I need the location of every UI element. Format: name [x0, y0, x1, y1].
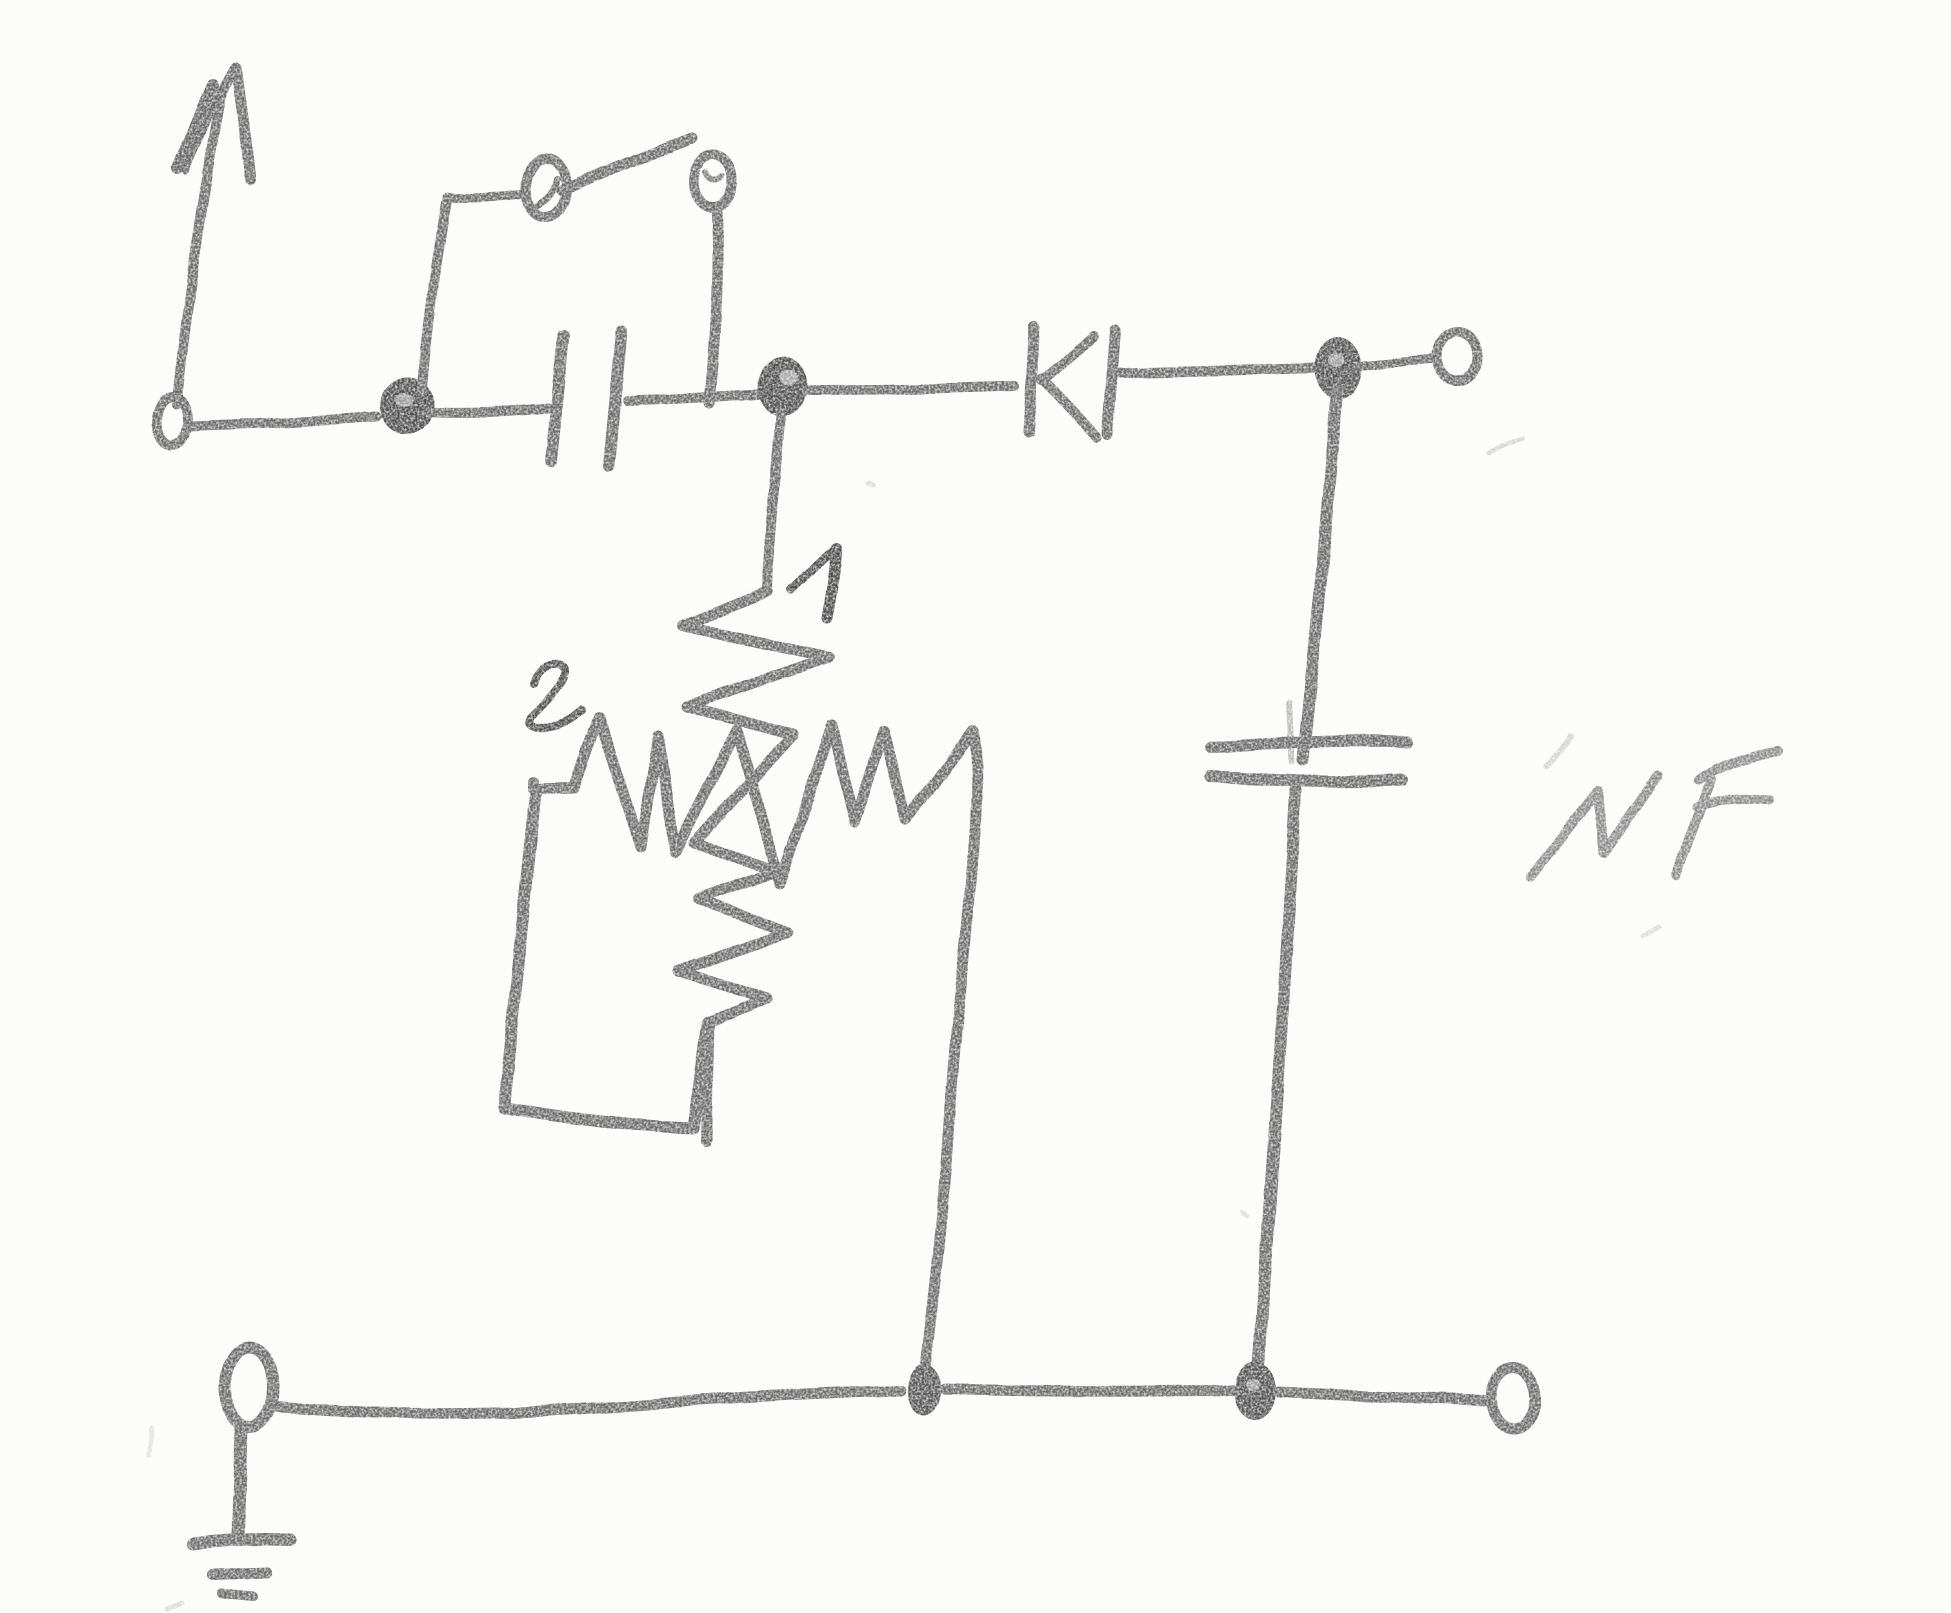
wire capacitor C2 down to junction D	[1258, 702, 1296, 1366]
wire coil 2 right end down to junction E	[925, 731, 977, 1368]
wire junction C to output terminal NF top	[1358, 359, 1437, 366]
junction E	[907, 1364, 941, 1416]
wire capacitor C1 to junction B	[628, 394, 757, 401]
terminal NF bottom	[1491, 1368, 1535, 1428]
capacitor C2 bottom plate	[1211, 777, 1402, 782]
capacitor C2 top plate	[1212, 741, 1406, 748]
faint dot above bottom rail	[1244, 1214, 1248, 1217]
coil 1 zigzag	[678, 592, 829, 1141]
switch S1 lever	[562, 138, 692, 191]
capacitor C1 left plate	[551, 336, 564, 461]
wire junction A up to switch S1	[421, 194, 524, 391]
label 2 (coil 2)	[529, 665, 582, 729]
wire bottom rail: ground terminal to junction E	[276, 1390, 900, 1414]
wire terminal to ground symbol	[238, 1428, 241, 1538]
faint stray mark bottom edge	[166, 1602, 181, 1608]
junction D	[1234, 1362, 1276, 1420]
switch S1 pivot contact	[525, 158, 567, 218]
terminal antenna input	[156, 396, 188, 446]
faint stray mark right of capacitor C2	[1643, 927, 1659, 936]
faint stray mark left bottom	[149, 1428, 152, 1456]
wire bottom rail: junction D to terminal NF bottom	[1279, 1392, 1484, 1400]
capacitor C1 right plate	[609, 332, 622, 466]
wire antenna terminal to junction A	[190, 417, 377, 427]
junction A	[380, 377, 434, 435]
wire diode D1 to junction C	[1121, 368, 1317, 373]
wire U-link coil1 bottom to coil2 left	[503, 793, 708, 1128]
coil 2 zigzag	[533, 717, 973, 883]
faint dot near wire	[869, 484, 874, 486]
junction B	[757, 356, 807, 416]
label 1 (coil 1)	[791, 547, 836, 617]
wire junction A to capacitor C1	[427, 408, 548, 413]
wire junction B down to coil 1	[768, 414, 781, 592]
junction C	[1315, 337, 1361, 399]
diode D1 (K| style)	[1028, 327, 1116, 438]
label NF	[1531, 737, 1778, 877]
switch S1 right contact	[693, 155, 733, 207]
wire junction C down to capacitor C2	[1303, 389, 1337, 760]
wire bottom rail: junction E to junction D	[944, 1389, 1233, 1391]
faint dash below terminal NF top	[1489, 438, 1522, 453]
terminal ground (bottom left)	[225, 1347, 273, 1427]
wire switch right contact down to top rail	[709, 208, 718, 403]
wire junction B to diode D1	[806, 386, 1014, 390]
antenna arrow	[176, 68, 251, 404]
ground	[193, 1540, 290, 1598]
terminal NF top	[1438, 332, 1478, 382]
